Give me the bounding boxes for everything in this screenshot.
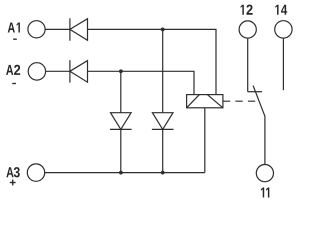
terminal 11 xyxy=(256,165,273,182)
terminal A1 xyxy=(28,21,45,38)
label A2 xyxy=(6,65,20,75)
wire contact 14 xyxy=(282,39,284,91)
terminal 12 xyxy=(239,21,256,38)
polarity minus A2 xyxy=(12,83,16,85)
wire V1 to relay pin (net A1) xyxy=(88,29,217,94)
polarity minus A1 xyxy=(13,38,17,40)
terminal A2 xyxy=(28,63,45,80)
label 12 xyxy=(241,5,253,15)
NC contact hook 12 xyxy=(248,91,262,93)
wire V2 to relay pin (net A2) xyxy=(88,71,195,94)
wire A2 to diode V2 xyxy=(46,70,70,72)
junction dot V3 bottom xyxy=(119,171,123,175)
diode V1 xyxy=(70,18,88,40)
wire V4 lower xyxy=(162,129,164,172)
diode V4 xyxy=(152,113,174,130)
wire relay coil return xyxy=(204,108,206,173)
terminal 14 xyxy=(275,21,292,38)
actuator dashed link xyxy=(223,100,259,102)
terminal A3 xyxy=(27,164,44,181)
contact blade xyxy=(253,86,265,165)
junction dot V4 bottom xyxy=(161,171,165,175)
junction dot A2 branch xyxy=(119,69,123,73)
label 14 xyxy=(275,5,287,15)
wire V3 lower xyxy=(120,129,122,172)
wire V3 upper xyxy=(120,71,122,112)
label A1 xyxy=(8,23,20,33)
junction dot A1 branch xyxy=(161,28,165,32)
wire A1 to diode V1 xyxy=(45,28,70,30)
polarity plus A3 xyxy=(10,180,16,186)
label 11 xyxy=(261,188,269,198)
diode V2 xyxy=(70,60,88,82)
diode V3 xyxy=(110,113,132,130)
relay K1 xyxy=(187,95,223,108)
wire A3 bottom net xyxy=(45,172,205,174)
label A3 xyxy=(6,167,19,177)
wire V4 upper xyxy=(162,29,164,112)
wire contact 12 xyxy=(247,39,249,92)
